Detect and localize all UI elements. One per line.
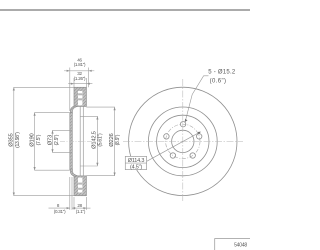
vertical centerline <box>182 79 184 201</box>
bolt circle label box <box>125 156 146 169</box>
svg-text:28: 28 <box>77 203 82 208</box>
dimension line D: diameter 142.5 hat drum <box>80 116 97 166</box>
svg-text:(5.61"): (5.61") <box>97 133 103 147</box>
leader arrowhead bolt circle <box>198 132 201 135</box>
dimension row 32: tails and line <box>68 83 74 85</box>
svg-text:Ø73: Ø73 <box>47 135 53 145</box>
lug hole lower left <box>170 153 175 158</box>
arrowheads dim C <box>51 130 53 133</box>
extension line hat face bottom <box>69 177 71 210</box>
leader arrowhead lug holes <box>185 119 188 122</box>
hat inner silhouette line right <box>82 107 84 177</box>
arrowhead dim 8 <box>67 207 70 209</box>
lug hole upper left <box>164 134 169 139</box>
front view outer circle <box>129 87 237 195</box>
dimension line A: diameter 355 outer <box>14 87 74 195</box>
svg-text:(1.1"): (1.1") <box>76 209 86 214</box>
svg-text:54048: 54048 <box>234 242 247 248</box>
dimension row 28: line <box>72 207 87 209</box>
svg-text:Ø114.3: Ø114.3 <box>128 158 145 164</box>
rotor cross-section: friction ring bottom annulus (plates + vent slot) <box>74 176 86 196</box>
front view hat circle <box>157 115 209 167</box>
arrowheads dim D <box>96 116 98 119</box>
dimension line C: diameter 73 center bore <box>53 130 73 152</box>
svg-text:Ø190: Ø190 <box>29 133 35 146</box>
rotor cross-section: friction ring top annulus (plates + vent slot) <box>74 87 86 106</box>
extension line ring left face bottom <box>73 197 75 210</box>
svg-text:(0.31"): (0.31") <box>54 209 66 214</box>
section centerline <box>60 140 92 142</box>
svg-text:(8.9"): (8.9") <box>115 134 121 145</box>
svg-text:Ø355: Ø355 <box>8 133 14 146</box>
horizontal centerline <box>123 140 243 142</box>
arrowheads dim 46 <box>67 70 70 72</box>
hat inner silhouette line left <box>79 107 81 177</box>
arrowheads dim E <box>114 107 116 110</box>
dimension row 46: tails and line <box>64 70 70 72</box>
extension line ring right face bottom <box>86 197 88 210</box>
svg-text:(4.5"): (4.5") <box>130 165 142 171</box>
extension line overall height <box>88 68 90 88</box>
front view pad inner circle <box>148 107 217 176</box>
svg-text:(13.98"): (13.98") <box>15 132 21 148</box>
lug hole top <box>180 122 185 127</box>
arrowheads dim 28 <box>72 207 75 209</box>
front view center bore <box>172 130 194 152</box>
hat mounting wall <box>70 113 73 171</box>
svg-text:5 - Ø15.2: 5 - Ø15.2 <box>208 70 236 76</box>
lug hole upper right <box>197 134 202 139</box>
part number box <box>215 239 251 250</box>
svg-text:(0.6"): (0.6") <box>210 78 227 84</box>
svg-text:(7.5"): (7.5") <box>36 134 42 145</box>
hat neck S-curve top <box>70 106 77 113</box>
extension line ring left face <box>73 78 75 87</box>
arrowheads dim 32 <box>71 83 74 85</box>
leader line lug holes <box>186 76 209 120</box>
svg-text:(2.9"): (2.9") <box>54 134 60 145</box>
dimension line B: diameter 190 hat face <box>35 113 70 171</box>
svg-text:(1.81"): (1.81") <box>74 62 86 67</box>
extension line hat wall inner bottom <box>71 177 73 210</box>
extension line hat face <box>69 68 71 112</box>
arrowheads dim B <box>34 113 36 116</box>
bolt circle (dash-dot) <box>166 124 200 158</box>
dimension row 8: line <box>49 207 70 209</box>
leader line bolt circle <box>147 132 200 161</box>
hat neck S-curve bottom <box>70 169 77 176</box>
svg-text:(1.26"): (1.26") <box>74 76 86 81</box>
dimension line E: diameter 226 pad inner <box>86 107 114 176</box>
arrowheads dim A <box>13 87 15 90</box>
extension line ring right face <box>86 78 88 87</box>
svg-text:Ø226: Ø226 <box>109 133 115 146</box>
top border line <box>0 9 250 11</box>
lug hole lower right <box>190 153 195 158</box>
